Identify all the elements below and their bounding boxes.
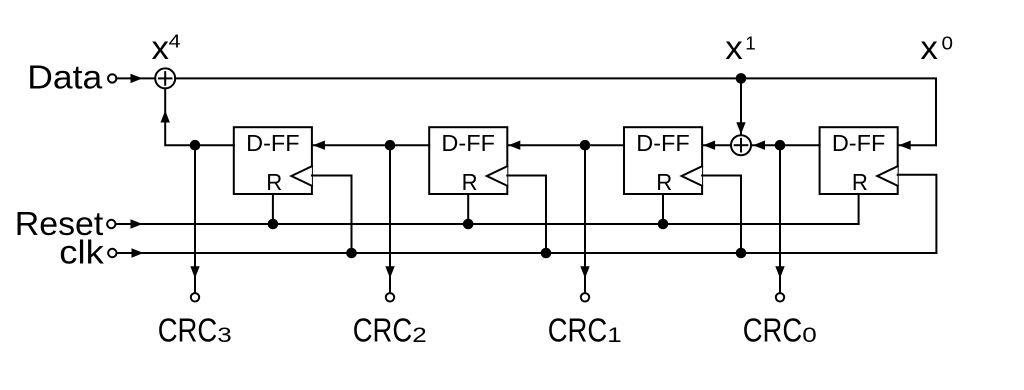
wire clk bus: [117, 248, 937, 257]
svg-text:x: x: [920, 29, 938, 66]
label x^4: [152, 29, 181, 66]
svg-text:R: R: [656, 169, 672, 195]
svg-text:CRC: CRC: [353, 312, 413, 349]
wire top net x^4..x^0: [175, 78, 936, 145]
node CRC1 tap: [580, 140, 591, 151]
wire U4 R to Reset bus end: [858, 194, 860, 224]
wire CRC1 output: [580, 145, 589, 292]
node CRC2 tap: [385, 140, 396, 151]
svg-text:CRC: CRC: [743, 312, 803, 349]
label x^0: [920, 29, 953, 66]
flip-flop U3 (D-FF): [624, 127, 702, 195]
wire U2 Q to U1 D: [313, 141, 429, 150]
node CRC0 tap: [775, 140, 786, 151]
label CRC2: [353, 312, 427, 349]
op: xor gate X2: [731, 135, 751, 155]
label CRC1: [548, 312, 622, 349]
wire Reset bus: [116, 219, 859, 228]
svg-text:R: R: [462, 169, 478, 195]
svg-text:0: 0: [942, 33, 954, 53]
svg-text:1: 1: [607, 324, 622, 347]
junction Reset bus 3: [658, 219, 669, 230]
svg-text:4: 4: [169, 32, 181, 52]
wire U2 clock to clk bus: [507, 176, 546, 254]
wire U1 R to Reset bus: [272, 194, 274, 224]
junction clk bus 1: [346, 248, 357, 259]
label CRC3: [158, 312, 232, 349]
svg-text:Data: Data: [27, 59, 103, 96]
flip-flop U4 (D-FF): [820, 127, 898, 195]
terminal Reset: [107, 220, 115, 228]
wire U1 clock to clk bus: [312, 176, 352, 254]
svg-text:R: R: [852, 169, 868, 195]
op: xor gate X1: [155, 68, 175, 88]
terminal Data: [108, 74, 116, 82]
svg-text:0: 0: [802, 324, 817, 347]
svg-text:x: x: [152, 29, 170, 66]
wire U2 R to Reset bus: [467, 194, 469, 224]
label CRC0: [743, 312, 817, 349]
junction clk bus 3: [736, 248, 747, 259]
svg-text:D-FF: D-FF: [246, 130, 300, 156]
svg-text:CRC: CRC: [548, 312, 608, 349]
wire CRC0 output: [775, 145, 784, 292]
svg-text:3: 3: [217, 324, 232, 347]
junction clk bus 2: [541, 248, 552, 259]
svg-text:x: x: [725, 29, 743, 66]
wire CRC3 output: [190, 145, 199, 292]
wire U4 clock from clk bus corner: [898, 175, 937, 253]
junction Reset bus 1: [268, 219, 279, 230]
wire into U4 D input: [899, 141, 936, 150]
flip-flop U1 (D-FF): [234, 127, 312, 195]
label x^1: [725, 29, 756, 66]
wire U3 Q to U2 D: [508, 141, 624, 150]
wire U4 Q to XOR2: [752, 141, 820, 150]
svg-text:1: 1: [745, 33, 756, 53]
wire U3 clock to clk bus: [702, 176, 741, 254]
wire U3 R to Reset bus: [662, 194, 664, 224]
wire Data to XOR1: [116, 74, 154, 83]
wire CRC2 output: [385, 145, 394, 292]
arrow feedback into XOR1: [161, 111, 170, 123]
flip-flop U2 (D-FF): [429, 127, 507, 195]
terminal clk: [108, 249, 116, 257]
svg-text:D-FF: D-FF: [636, 130, 690, 156]
wire XOR2 to U3 D: [703, 141, 731, 150]
svg-text:clk: clk: [59, 233, 104, 270]
svg-text:D-FF: D-FF: [441, 130, 495, 156]
svg-text:2: 2: [412, 324, 427, 347]
terminal CRC1: [581, 293, 589, 301]
svg-text:D-FF: D-FF: [832, 130, 886, 156]
terminal CRC3: [191, 293, 199, 301]
wire x^1 tap down to XOR2: [736, 78, 745, 134]
svg-text:R: R: [266, 169, 282, 195]
node CRC3 tap: [190, 140, 201, 151]
wire U1 Q to feedback corner: [165, 88, 234, 145]
junction Reset bus 2: [463, 219, 474, 230]
node x^1 tap: [736, 73, 747, 84]
terminal CRC2: [386, 293, 394, 301]
svg-text:CRC: CRC: [158, 312, 218, 349]
terminal CRC0: [776, 293, 784, 301]
